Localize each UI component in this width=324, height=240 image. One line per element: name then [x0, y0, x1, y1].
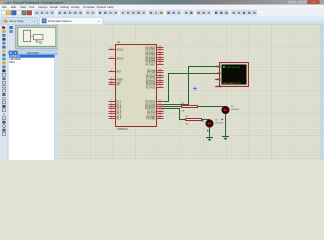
svg-text:P3.5/T1: P3.5/T1: [147, 113, 156, 115]
pin 27 P2.6/A14: [157, 84, 164, 86]
svg-text:Library: Library: [71, 5, 80, 9]
pin 37 P0.2/AD2: [157, 52, 164, 54]
svg-text:RTS: RTS: [216, 79, 221, 81]
svg-text:MENU SELECT OPT: MENU SELECT OPT: [223, 83, 242, 85]
pin 4 P1.3: [109, 108, 116, 110]
wire D2 to ground: [209, 127, 211, 137]
svg-text:RXD: RXD: [216, 66, 221, 68]
svg-text:Tool: Tool: [29, 5, 35, 9]
pin 11 P3.1/TXD: [157, 104, 164, 106]
wire P3.3 to R2: [164, 109, 186, 120]
svg-text:P0.3/AD3: P0.3/AD3: [145, 53, 156, 56]
svg-text:Design: Design: [39, 5, 48, 9]
svg-text:TXD: TXD: [216, 73, 221, 75]
pin 18 XTAL2: [109, 58, 116, 60]
pin 3 P1.2: [109, 106, 116, 108]
svg-text:Template: Template: [83, 5, 95, 9]
wire P3.0 to terminal TXD: [164, 74, 216, 102]
svg-text:Graph: Graph: [50, 5, 58, 9]
pin 28 P2.7/A15: [157, 87, 164, 89]
svg-text:LED-RED: LED-RED: [231, 109, 240, 111]
mode toolbar column: [0, 25, 15, 160]
DEVICES header: [9, 50, 58, 55]
svg-text:U1: U1: [117, 40, 121, 44]
pin 36 P0.3/AD3: [157, 54, 164, 56]
canvas vertical scrollbar: [321, 25, 324, 160]
svg-text:P1.5: P1.5: [117, 113, 122, 115]
menu bar: [0, 5, 324, 10]
tab bar: [0, 17, 324, 25]
terminal pin CTS: [216, 86, 220, 88]
svg-text:PSEN: PSEN: [117, 79, 124, 81]
pin 9 RST: [109, 71, 116, 73]
pin 1 P1.0: [109, 101, 116, 103]
svg-text:XTAL1: XTAL1: [117, 48, 125, 51]
pin 26 P2.5/A13: [157, 82, 164, 84]
terminal screen text top: [223, 66, 225, 68]
device list scrollbar: [55, 55, 59, 160]
pin 29 PSEN: [109, 79, 116, 81]
pin 16 P3.6/WR: [157, 116, 164, 118]
svg-text:Debug: Debug: [61, 5, 70, 9]
svg-text:XTAL2: XTAL2: [117, 57, 125, 60]
svg-text:Edit: Edit: [11, 5, 16, 9]
svg-text:Help: Help: [108, 5, 114, 9]
pin 19 XTAL1: [109, 49, 116, 51]
svg-text:Schematic Capture: Schematic Capture: [48, 19, 72, 23]
svg-text:1.LED ON 2.OFF: 1.LED ON 2.OFF: [226, 67, 241, 69]
svg-text:AT89C51: AT89C51: [117, 127, 128, 131]
svg-text:×: ×: [98, 19, 100, 23]
pin 35 P0.4/AD4: [157, 57, 164, 59]
pin 32 P0.7/AD7: [157, 64, 164, 66]
svg-text:Home Page: Home Page: [9, 19, 24, 23]
pin 31 EA: [109, 84, 116, 86]
logic state marker P3.3: [162, 108, 163, 109]
wire D1 to ground: [225, 114, 227, 137]
pin 5 P1.4: [109, 111, 116, 113]
pin 39 P0.0/AD0: [157, 47, 164, 49]
logic state marker D2: [207, 130, 208, 131]
svg-text:P1.3: P1.3: [117, 108, 122, 110]
LED D1: [222, 106, 230, 114]
tab Home Page: [2, 17, 38, 24]
svg-text:P0.6/AD6: P0.6/AD6: [145, 60, 156, 63]
svg-text:P3.7/RD: P3.7/RD: [147, 118, 156, 120]
pin 21 P2.0/A8: [157, 70, 164, 72]
svg-text:×: ×: [33, 19, 35, 23]
svg-text:P2.3/A11: P2.3/A11: [146, 76, 156, 79]
svg-text:LED-RED: LED-RED: [215, 123, 224, 125]
svg-text:P2.7/A15: P2.7/A15: [146, 86, 156, 89]
tab Schematic Capture active: [40, 17, 104, 24]
svg-text:View: View: [20, 5, 27, 9]
pin 23 P2.2/A10: [157, 75, 164, 77]
pin 2 P1.1: [109, 104, 116, 106]
pin 17 P3.7/RD: [157, 118, 164, 120]
mcu U1 AT89C51 body: [116, 45, 157, 127]
svg-text:x.uart - Proteus 8 Professiona: x.uart - Proteus 8 Professional - Schema…: [4, 0, 64, 4]
logic state marker D1: [222, 119, 223, 120]
svg-text:P1.0: P1.0: [117, 101, 122, 103]
device list: [9, 55, 55, 160]
svg-text:P0.7/AD7: P0.7/AD7: [145, 63, 156, 66]
svg-text:File: File: [2, 5, 7, 9]
svg-text:P2.6/A14: P2.6/A14: [146, 83, 156, 86]
svg-text:EA: EA: [117, 83, 121, 86]
svg-text:DEVICES: DEVICES: [27, 51, 39, 55]
ground: [206, 137, 213, 139]
svg-text:RST: RST: [117, 71, 122, 73]
pin 34 P0.5/AD5: [157, 59, 164, 61]
svg-text:P3.3/INT1: P3.3/INT1: [145, 108, 156, 110]
svg-text:10k: 10k: [181, 111, 184, 113]
cursor crosshair: [193, 88, 197, 90]
schematic canvas: [58, 25, 324, 160]
pin 6 P1.5: [109, 113, 116, 115]
pin 13 P3.3/INT1: [157, 108, 164, 110]
terminal pin RTS: [216, 79, 220, 81]
pin 25 P2.4/A12: [157, 80, 164, 82]
overview mini schematic: [24, 30, 31, 41]
logic state marker R2-D2: [202, 120, 203, 121]
pin 22 P2.1/A9: [157, 72, 164, 74]
svg-text:P1.7: P1.7: [117, 118, 122, 120]
wire R1 to D1: [198, 105, 226, 107]
pin 7 P1.6: [109, 116, 116, 118]
resistor R2: [186, 119, 202, 121]
pin 33 P0.6/AD6: [157, 61, 164, 63]
terminal screen: [222, 65, 247, 85]
pin 38 P0.1/AD1: [157, 49, 164, 51]
pin 30 ALE: [109, 82, 116, 84]
virtual terminal body: [220, 63, 249, 87]
logic state marker P3.2: [162, 106, 163, 107]
svg-text:P0.1/AD1: P0.1/AD1: [145, 48, 156, 51]
wire P3.2 to R1: [164, 106, 182, 108]
svg-text:10k: 10k: [185, 124, 188, 126]
terminal pin TXD: [216, 73, 220, 75]
window buttons: [288, 0, 297, 3]
toolbar: [0, 9, 324, 16]
pin 8 P1.7: [109, 118, 116, 120]
svg-text:CTS: CTS: [216, 86, 221, 88]
overview green frame: [18, 27, 56, 46]
pin 24 P2.3/A11: [157, 77, 164, 79]
resistor R1: [182, 106, 198, 108]
wire R2 to D2: [202, 119, 210, 121]
svg-text:P3.0/RXD: P3.0/RXD: [145, 101, 156, 103]
pin 10 P3.0/RXD: [157, 101, 164, 103]
overview panel: [15, 25, 59, 51]
pin 12 P3.2/INT0: [157, 106, 164, 108]
pin 15 P3.5/T1: [157, 113, 164, 115]
svg-text:P2.1/A9: P2.1/A9: [147, 71, 156, 74]
svg-text:RES: RES: [9, 60, 15, 64]
ground: [222, 136, 229, 138]
pin 14 P3.4/T0: [157, 111, 164, 113]
mode toolbar second column icons: [9, 26, 13, 29]
terminal pin RXD: [216, 66, 220, 68]
svg-text:System: System: [97, 5, 107, 9]
device list selected row AT89C51: [9, 55, 55, 58]
LED D2: [206, 120, 214, 128]
wire P3.1 to terminal RXD: [164, 67, 216, 105]
title bar: [0, 0, 324, 5]
